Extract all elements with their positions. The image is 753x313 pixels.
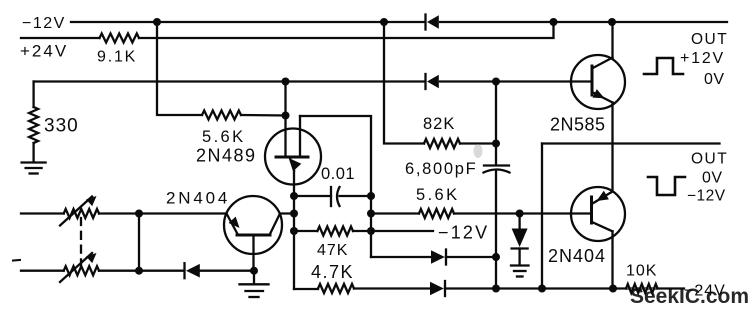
ground (below left 2N404 base) — [240, 284, 269, 297]
wire 82K branch drop from top rail — [384, 22, 424, 144]
node junction dot base of left 2N404 / diode — [250, 267, 258, 275]
svg-text:+12V: +12V — [680, 50, 725, 67]
svg-text:+24V: +24V — [20, 42, 68, 61]
node junction dot diode D3 / x496 — [492, 253, 500, 261]
stray smudge artifact near 82K junction — [474, 144, 483, 158]
node junction dot emitter / collector stub — [290, 210, 298, 218]
ground (below clamp diode) — [511, 266, 529, 277]
svg-text:−12V: −12V — [438, 223, 489, 243]
node junction dot emitter / 47K line — [290, 227, 298, 235]
resistor 330 — [29, 107, 38, 143]
svg-text:5.6K: 5.6K — [202, 128, 246, 146]
svg-text:SeekIC.com: SeekIC.com — [630, 285, 749, 308]
svg-text:OUT: OUT — [691, 31, 728, 48]
wire 2N585 emitter down — [611, 103, 613, 192]
resistor 5.6K (UJT feed) — [202, 111, 241, 120]
wire x496 vertical upper — [495, 82, 497, 166]
node junction dot pots coupling bottom — [135, 267, 143, 275]
node junction dot 5.6K / B2 lead — [282, 112, 290, 120]
node junction dot -12V line / x371 — [367, 210, 375, 218]
diode on lower input line — [185, 263, 255, 278]
wire bottom rail from 2N489 emitter drop — [294, 288, 318, 290]
wire 5.6K to B2 node — [241, 114, 286, 117]
svg-text:2N585: 2N585 — [550, 115, 606, 135]
node junction dot emitter / 0.01 line — [290, 192, 298, 200]
wire OUT2 line — [542, 142, 720, 144]
variable resistor (top input pot) — [21, 196, 227, 226]
svg-text:2N404: 2N404 — [548, 246, 606, 266]
node junction dot 47K right / x371 — [367, 227, 375, 235]
wire 5.6K second to base — [454, 212, 571, 214]
wire base to ground — [253, 271, 255, 284]
resistor 47K with wires — [294, 230, 317, 232]
svg-text:6,800pF: 6,800pF — [405, 160, 477, 178]
wire +24V rail to riser — [139, 22, 554, 38]
diode on bottom rail — [430, 281, 684, 296]
wire bottom rail to diode D4 — [354, 287, 430, 289]
unijunction transistor 2N489 — [265, 82, 321, 185]
wire 2N489 B1 top loop to right drop — [300, 116, 371, 257]
capacitor 6,800pF — [484, 166, 510, 173]
svg-text:5.6K: 5.6K — [416, 186, 460, 204]
svg-text:47K: 47K — [317, 242, 348, 259]
resistor 4.7K — [318, 284, 354, 293]
node junction dot 82K / x496 — [492, 140, 500, 148]
wire 2N489 emitter drop — [293, 171, 295, 290]
svg-text:10K: 10K — [626, 263, 657, 280]
svg-text:2N404: 2N404 — [166, 189, 230, 208]
node junction dot bottom rail / x542 — [538, 285, 546, 293]
svg-text:82K: 82K — [423, 115, 455, 133]
svg-text:−12V: −12V — [22, 15, 66, 32]
diode on mid discharge line — [371, 250, 496, 265]
wire -12V top rail left segment — [71, 21, 425, 23]
node junction dot base rail / 2N489 B2 — [282, 78, 290, 86]
node junction dot top rail / 5.6K feed — [153, 18, 161, 26]
node junction dot pots coupling top — [135, 210, 143, 218]
node junction dot top rail / +24V join — [550, 18, 558, 26]
transistor 2N404 (left PNP) — [224, 196, 294, 271]
capacitor 0.01 — [294, 187, 371, 206]
variable resistor (bottom input pot) — [21, 253, 184, 282]
svg-text:0.01: 0.01 — [321, 165, 355, 183]
diode clamp to ground — [512, 214, 528, 266]
transistor 2N404 (right PNP) — [571, 187, 625, 241]
wire -12V line to right 2N404 base — [371, 212, 419, 214]
wire base rail y=81.5 left of diode — [34, 80, 425, 82]
wire gang dashed link — [80, 218, 82, 266]
svg-text:OUT: OUT — [691, 151, 728, 168]
node junction dot bottom rail / right 2N404 collector — [609, 285, 617, 293]
wire -12V drop to 5.6K — [157, 22, 202, 115]
resistor 10K (on -24V rail) — [626, 284, 658, 293]
node junction dot bottom rail / x496 — [492, 285, 500, 293]
node junction dot 0.01 right / x371 — [367, 192, 375, 200]
wire -12V top rail right segment — [440, 21, 727, 23]
svg-text:4.7K: 4.7K — [311, 262, 354, 282]
diode on -12V top rail — [426, 15, 439, 30]
wire left drop to 330 — [32, 82, 34, 108]
resistor 9.1K — [100, 34, 140, 43]
stray mark artifact — [13, 259, 20, 262]
waveform pulse positive — [644, 58, 683, 74]
transistor 2N585 (NPN) — [571, 55, 625, 109]
node junction dot base rail / 6800pF branch — [492, 78, 500, 86]
wire x496 vertical lower — [495, 172, 497, 289]
wire 2N585 collector to top rail — [611, 22, 613, 58]
ground (below 330) — [22, 163, 46, 174]
resistor 5.6K (base feed) — [419, 209, 454, 218]
waveform pulse negative — [648, 177, 685, 195]
wire 330 to ground — [32, 143, 34, 162]
node junction dot top rail / 82K feed — [380, 18, 388, 26]
wire +24V rail left of resistor — [21, 37, 100, 39]
resistor 82K — [424, 139, 460, 148]
wire coupling vertical x139 — [138, 214, 140, 271]
wire 82K to x496 — [460, 142, 496, 144]
node junction dot clamp diode anode — [516, 210, 524, 218]
svg-text:330: 330 — [44, 116, 79, 137]
diode on base rail — [426, 74, 439, 89]
svg-text:2N489: 2N489 — [196, 146, 257, 166]
svg-text:9.1K: 9.1K — [97, 49, 137, 66]
svg-text:0V: 0V — [702, 170, 723, 187]
wire OUT2 feed loop — [541, 144, 543, 289]
node junction dot top rail / 2N585 collector — [608, 18, 616, 26]
wire -12V stub with label — [371, 230, 433, 232]
svg-text:0V: 0V — [704, 71, 725, 88]
wire base rail y=81.5 right of diode to 2N585 base — [440, 80, 571, 82]
svg-text:−12V: −12V — [687, 188, 726, 205]
wire 2N404 right collector down — [611, 231, 613, 288]
